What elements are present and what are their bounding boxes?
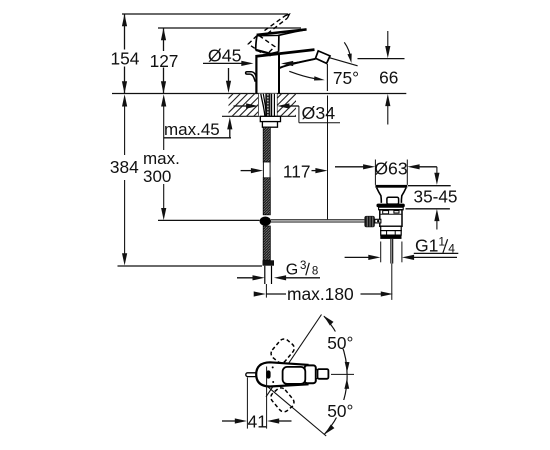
svg-text:384: 384 [110, 157, 139, 177]
svg-text:41: 41 [248, 412, 267, 432]
75 deg spout axis line [330, 58, 358, 66]
plan axis line [266, 367, 268, 387]
waste tailpipe collar [380, 235, 401, 239]
waste body [380, 210, 402, 227]
waste flange [375, 185, 407, 188]
66 dimension arrows [387, 31, 389, 47]
flange top extension line [408, 185, 451, 187]
mounting hole right edge [276, 94, 278, 117]
washer under counter [260, 116, 280, 121]
lever hole bottom edge [270, 52, 278, 54]
plan screw dots [272, 366, 274, 368]
spout underside curve [279, 59, 316, 69]
hose connector pipe [264, 266, 266, 284]
rod to body pin [375, 219, 381, 223]
rod ball joint [260, 217, 271, 226]
dashed raised lever loop [248, 35, 274, 56]
waste body tabs [383, 211, 389, 214]
waste collar second ring [379, 207, 404, 210]
svg-text:35-45: 35-45 [414, 187, 458, 207]
plan centerline right [331, 373, 354, 375]
flexible hose braided segment 1 [263, 127, 270, 162]
waste tailpipe thin tube [390, 239, 392, 264]
svg-text:117: 117 [283, 162, 311, 182]
svg-text:8: 8 [312, 266, 318, 278]
svg-text:3: 3 [300, 260, 306, 272]
svg-text:154: 154 [110, 49, 139, 69]
lever loop left edge [256, 36, 257, 50]
raised lever tip [286, 14, 290, 18]
Ø45 leader left arrow [203, 62, 243, 64]
G1 1/4 dimension arrows [345, 256, 369, 258]
swing arc upper [324, 316, 347, 375]
countertop hatching right of hole [259, 94, 318, 117]
flexible hose braided segment 3 [263, 226, 270, 260]
dashed lever rotated down [269, 386, 297, 414]
rod adjuster knob [364, 216, 374, 227]
75 deg arc arrow upper [344, 42, 351, 59]
75 deg arc arrow lower [289, 71, 316, 79]
svg-text:66: 66 [379, 67, 398, 87]
waste seal collar [377, 204, 405, 208]
svg-text:Ø34: Ø34 [302, 103, 336, 123]
dimension 127 line+arrows [163, 28, 165, 51]
lever top edge [257, 29, 307, 35]
svg-text:Ø63: Ø63 [374, 159, 407, 179]
faucet body top and spout top edge [255, 50, 314, 57]
Ø34 arrows [234, 105, 248, 107]
50 deg lower label [326, 400, 357, 418]
plan handle dot [266, 370, 270, 378]
svg-text:50°: 50° [327, 401, 353, 421]
lever hole top edge [257, 34, 279, 36]
swing ray lower [267, 386, 326, 436]
dashed raised lever arm [265, 15, 286, 30]
mounting nut [262, 122, 277, 128]
dimension 384 line+arrows [122, 94, 127, 106]
50 deg upper label [326, 332, 357, 350]
svg-text:50°: 50° [327, 333, 353, 353]
pipe extension to max180 [265, 284, 267, 298]
svg-text:max.: max. [143, 149, 180, 168]
spout bottom face line [292, 59, 315, 63]
dimension Ø63 [335, 166, 364, 168]
G3/8 dimension arrows [237, 277, 253, 279]
waste body step [381, 226, 402, 230]
plan body outline [256, 362, 307, 386]
svg-text:max.180: max.180 [287, 284, 354, 304]
pop-up rod knob at rear [246, 72, 252, 74]
35-45 lower arrow [434, 209, 439, 221]
swing arc lower [325, 375, 348, 434]
waste plug lifter [387, 197, 399, 204]
mounting hole left edge [258, 94, 260, 117]
lever loop bottom edge [256, 50, 271, 54]
dimension max180 [254, 291, 266, 296]
lever grip underside [279, 30, 307, 52]
dimension 154 line+arrows [124, 14, 126, 50]
hose edges through dim gap [262, 162, 264, 178]
waste tailpipe extension lines [380, 242, 382, 263]
35-45 upper arrow [436, 167, 438, 174]
waste tube section [381, 231, 402, 236]
plan lever grip [283, 367, 306, 384]
svg-text:max.45: max.45 [164, 120, 220, 139]
flexible hose braided segment 2 [263, 178, 270, 215]
countertop hatching left of hole [211, 94, 277, 117]
svg-text:Ø45: Ø45 [208, 45, 242, 65]
waste body mid line [380, 213, 402, 215]
66 extension line spout height [358, 58, 405, 60]
svg-text:75°: 75° [333, 68, 359, 88]
G3/8 hose nut [263, 260, 275, 265]
faucet body right edge [278, 53, 280, 93]
plan spout tube [318, 369, 329, 379]
dimension max300 line+arrows [161, 94, 166, 106]
spout tip extension line [327, 96, 329, 220]
svg-text:G: G [286, 261, 298, 278]
extension line at rod level [158, 219, 260, 221]
collar extension line [406, 208, 450, 210]
svg-text:127: 127 [150, 51, 179, 71]
plan lever end cap [305, 365, 316, 383]
75 deg vertical reference line [326, 64, 328, 91]
Ø45 drop line to counter [228, 68, 230, 82]
Ø34 leader shelf [298, 106, 300, 123]
extension line at G3/8 nut level [118, 265, 263, 267]
extension line top of closed lever [158, 27, 301, 29]
plan spout joint [316, 370, 318, 379]
svg-text:G1: G1 [415, 235, 438, 255]
countertop surface line [112, 93, 406, 95]
Ø45 right arrow [281, 61, 293, 66]
dashed lever rotated up [269, 337, 297, 365]
countertop bottom line [222, 115, 296, 117]
plan rear knob [246, 373, 257, 377]
max.45 underline+arrow [164, 137, 232, 139]
41 extension lines [246, 377, 248, 428]
dimension 41 [222, 420, 236, 422]
waste flange extension lines [374, 160, 376, 185]
swing ray upper [266, 315, 322, 397]
faucet body left edge [255, 56, 257, 93]
svg-text:1: 1 [438, 234, 445, 248]
threaded shank [259, 94, 277, 117]
dimension 117 [241, 170, 252, 172]
spout aerator end [316, 51, 331, 64]
G1 1/4 underline [414, 252, 459, 254]
lever neck line [269, 54, 271, 56]
extension line top of lifted lever [122, 13, 288, 15]
svg-text:300: 300 [143, 167, 171, 186]
waste cone sides [377, 188, 382, 203]
pop-up rod horizontal [271, 219, 364, 221]
